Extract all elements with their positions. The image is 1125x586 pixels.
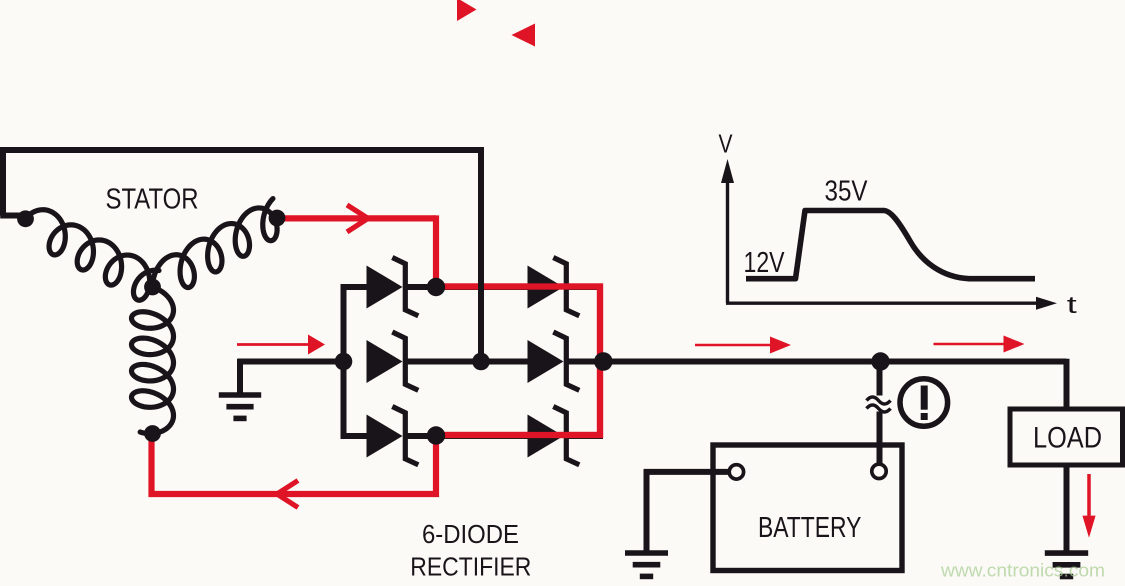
- red current arrow before load: [934, 336, 1025, 353]
- battery negative terminal post: [729, 465, 743, 479]
- node phase C at rectifier: [427, 426, 445, 444]
- wire center node to D5 anode: [481, 359, 528, 365]
- ground symbol at load: [1045, 553, 1088, 576]
- svg-text:12V: 12V: [744, 247, 785, 279]
- svg-text:STATOR: STATOR: [106, 184, 199, 216]
- logo red triangle (right-pointing): [457, 0, 477, 21]
- wire top horizontal (stator left terminal to rectifier phase B): [0, 147, 481, 153]
- ground symbol at battery: [625, 553, 668, 576]
- wire battery drop lower: [877, 412, 883, 465]
- diode D6 (right column bottom): [528, 407, 580, 465]
- node stator center (neutral): [144, 279, 161, 296]
- diode D3 (left column bottom): [367, 407, 419, 465]
- label RECTIFIER: [410, 552, 531, 582]
- node phase A at rectifier: [427, 278, 445, 296]
- wire battery drop upper: [877, 362, 883, 396]
- wire phase C node to D6 anode: [436, 433, 528, 439]
- graph label t: [1067, 292, 1077, 319]
- stator coil right winding: [153, 199, 278, 288]
- red wire phase C return (rectifier bottom to stator bottom): [152, 432, 437, 494]
- graph waveform (load dump transient): [746, 211, 1035, 279]
- wire output bus to load corner: [600, 359, 1067, 411]
- stator coil bottom winding: [132, 287, 174, 434]
- load box: [1010, 409, 1123, 465]
- label 6-DIODE: [422, 519, 519, 549]
- wire phase A node to D4 anode: [436, 284, 528, 290]
- svg-text:RECTIFIER: RECTIFIER: [410, 552, 531, 582]
- label BATTERY: [758, 512, 862, 544]
- wire left bus stub row1: [344, 284, 368, 290]
- node rectifier output: [594, 352, 613, 371]
- node rectifier left bus junction: [335, 353, 353, 371]
- red wire overlay on rectifier right bus: [436, 287, 600, 436]
- watermark www.cntronics.com: [940, 560, 1105, 581]
- node stator left terminal: [17, 210, 34, 227]
- wire D2 cathode to center node: [406, 359, 485, 365]
- stator coil left winding: [26, 210, 159, 301]
- diode D2 (left column middle): [367, 332, 419, 390]
- graph t axis: [726, 297, 1057, 310]
- red current arrow after rectifier: [695, 337, 791, 354]
- wire battery negative to ground: [644, 469, 729, 553]
- logo red triangle (left-pointing): [512, 24, 536, 47]
- wire D6 cathode to output bus: [567, 433, 600, 439]
- diode D1 (left column top): [367, 258, 419, 316]
- node battery junction: [871, 352, 889, 370]
- red current arrow through load: [1082, 474, 1095, 538]
- wire rectifier left bus vertical: [341, 284, 347, 439]
- red current arrow chevron on return path: [277, 481, 298, 508]
- ground symbol at rectifier input: [219, 395, 261, 418]
- wire D5 cathode to output node: [567, 359, 607, 365]
- diode D4 (right column top): [528, 258, 580, 316]
- wire phase B vertical drop: [478, 147, 484, 362]
- red wire phase A (stator right terminal to rectifier top): [277, 215, 600, 435]
- wire load to ground: [1064, 465, 1070, 553]
- red current arrow chevron on phase A: [347, 205, 368, 232]
- red current arrow into rectifier: [237, 335, 325, 355]
- wire rectifier right bus vertical: [597, 284, 603, 439]
- wire stator left terminal drop: [0, 150, 24, 216]
- node stator bottom terminal: [144, 425, 161, 442]
- node stator right terminal: [269, 210, 286, 227]
- graph label V: [719, 129, 734, 159]
- wire D4 cathode to output bus: [567, 284, 600, 290]
- break symbol (disconnect squiggle): [867, 397, 891, 412]
- graph V axis: [721, 159, 734, 303]
- svg-text:www.cntronics.com: www.cntronics.com: [940, 560, 1105, 581]
- wire left bus stub row3: [344, 433, 368, 439]
- label STATOR: [106, 184, 199, 216]
- battery positive terminal post: [872, 464, 886, 478]
- wire D3 cathode to phase C node: [406, 433, 440, 439]
- graph label 12V: [744, 247, 785, 279]
- svg-text:BATTERY: BATTERY: [758, 512, 862, 544]
- wire rectifier input with ground stub: [238, 359, 346, 393]
- svg-text:t: t: [1067, 292, 1077, 319]
- svg-text:V: V: [719, 129, 734, 159]
- wire D1 cathode to phase A node: [406, 284, 440, 290]
- label LOAD: [1033, 422, 1102, 455]
- svg-text:LOAD: LOAD: [1033, 422, 1102, 455]
- svg-text:35V: 35V: [825, 176, 868, 208]
- graph label 35V: [825, 176, 868, 208]
- node phase B at rectifier: [472, 353, 490, 371]
- warning circle with exclamation: [900, 379, 948, 427]
- diode D5 (right column middle): [528, 332, 580, 390]
- battery box: [713, 445, 902, 571]
- svg-text:6-DIODE: 6-DIODE: [422, 519, 519, 549]
